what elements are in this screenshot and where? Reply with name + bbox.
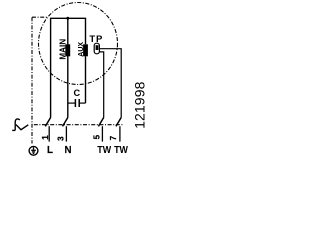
housing boundary left vertical (dash-dot)	[31, 17, 33, 143]
terminal 3 blade	[63, 118, 68, 127]
svg-text:3: 3	[57, 136, 66, 141]
motor boundary M (dash-dot ellipse)	[39, 3, 118, 85]
terminal 3 lower stub	[65, 126, 67, 141]
svg-text:MAIN: MAIN	[59, 39, 68, 60]
terminal 1 lower stub	[48, 126, 50, 141]
wire TP lower lead to terminal 5	[99, 52, 103, 118]
terminal 5 blade	[98, 118, 103, 127]
wire main winding vertical down to terminal 3	[67, 18, 69, 117]
terminal 1 blade	[45, 118, 50, 127]
capacitor C right lead wire	[79, 102, 85, 104]
svg-text:L: L	[47, 145, 53, 156]
terminal 7 lower stub	[119, 126, 121, 141]
wire top bus with left leg down to terminal 1	[51, 18, 86, 117]
terminal 7 blade	[116, 118, 121, 127]
housing boundary top segment (dash-dot)	[32, 16, 48, 18]
thermal protector TP contact fill	[96, 45, 99, 50]
thermal protector TP capsule	[94, 43, 99, 54]
svg-text:1: 1	[41, 135, 50, 140]
wire aux winding lower	[85, 56, 87, 103]
svg-text:7: 7	[109, 135, 118, 140]
terminal 5 lower stub	[101, 126, 103, 141]
aux winding AUX	[83, 44, 88, 56]
node junction at top of main winding	[66, 17, 69, 20]
svg-text:TW: TW	[114, 145, 129, 156]
svg-text:N: N	[65, 145, 72, 156]
mains flexible-lead symbol (squiggle)	[12, 119, 28, 130]
svg-text:5: 5	[93, 134, 102, 139]
wire TP upper lead to terminal 7	[100, 49, 122, 118]
svg-text:C: C	[73, 88, 80, 98]
protective earth glyph	[31, 147, 36, 153]
svg-text:121998: 121998	[132, 81, 148, 128]
svg-text:TP: TP	[89, 34, 103, 45]
housing boundary bottom horizontal (dash-dot)	[34, 124, 123, 126]
main winding MAIN	[65, 44, 70, 56]
capacitor C left lead wire	[68, 102, 76, 104]
capacitor C plates	[74, 99, 76, 107]
svg-text:AUX: AUX	[78, 42, 85, 57]
protective earth symbol circle	[29, 146, 38, 155]
svg-text:TW: TW	[97, 145, 112, 156]
